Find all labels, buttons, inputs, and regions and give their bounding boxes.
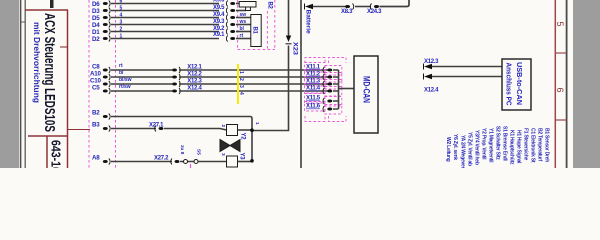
wire C8-X12.1 — [111, 69, 172, 71]
svg-text:D3: D3 — [92, 8, 100, 15]
svg-text:X8.3: X8.3 — [341, 9, 353, 15]
connector X27.1 — [149, 123, 164, 132]
terminal X12.1 — [172, 65, 202, 74]
svg-text:X12.4: X12.4 — [424, 88, 439, 94]
svg-text:bl: bl — [119, 70, 124, 76]
svg-text:S5: S5 — [196, 149, 202, 155]
svg-text:rt/sw: rt/sw — [119, 84, 131, 90]
svg-text:X9.4: X9.4 — [213, 12, 225, 18]
svg-text:Y6 Zyl. senk: Y6 Zyl. senk — [452, 134, 458, 160]
X11.6 connector dashed bracket — [325, 105, 342, 115]
pin D6 — [92, 1, 110, 9]
B1/B2 dashed enclosure right — [274, 0, 276, 50]
wire C10-X12.3 — [111, 83, 172, 85]
wire to top corner — [380, 0, 410, 7]
svg-text:bl/sw: bl/sw — [119, 77, 132, 83]
svg-text:X11.1: X11.1 — [306, 65, 321, 71]
X11.4 label dashed bracket — [305, 84, 326, 94]
svg-text:H1 Hupe Signal: H1 Hupe Signal — [516, 130, 522, 164]
junction at return bus bottom — [250, 159, 254, 163]
wire D4-X9.3 — [111, 24, 219, 26]
terminal X9.3 — [213, 19, 235, 28]
svg-text:Y2 Prop. Ventil: Y2 Prop. Ventil — [481, 128, 487, 160]
X11 dashed box top runs — [305, 58, 346, 64]
USB-to-CAN box — [502, 59, 531, 110]
svg-text:C10: C10 — [90, 78, 102, 85]
pin C5 — [92, 85, 110, 95]
svg-text:X9.5: X9.5 — [213, 5, 225, 11]
X11.1 label dashed bracket — [305, 63, 326, 73]
svg-text:Y2: Y2 — [240, 133, 246, 141]
pin A10 — [90, 71, 110, 81]
wire A10-X12.2 — [111, 76, 172, 78]
cable marker yellow — [237, 64, 239, 104]
svg-text:ACX Steuerung LEDS10S: ACX Steuerung LEDS10S — [41, 13, 57, 132]
svg-text:F1 Steuersiche: F1 Steuersiche — [523, 128, 529, 161]
svg-text:sw: sw — [240, 12, 247, 18]
switch contact a — [184, 160, 188, 164]
wire numbers 6..1 — [120, 0, 123, 40]
wire D3-X9.5 — [111, 10, 219, 12]
wire stubs into B boxes — [236, 4, 251, 39]
X23 tick — [286, 43, 292, 45]
pin B2 — [92, 110, 110, 120]
X12.3 source arrow — [424, 59, 503, 70]
svg-text:D6: D6 — [92, 1, 100, 8]
X11.6 label dashed bracket — [305, 102, 326, 112]
frame row tick right upper — [555, 52, 567, 54]
X11 bus bar — [338, 70, 340, 109]
wire D1-X9.2 — [111, 31, 219, 33]
left paper edge line 1 — [20, 0, 22, 168]
X23 arrowhead — [286, 36, 291, 43]
X11.2 — [306, 72, 339, 81]
svg-text:2: 2 — [220, 125, 226, 128]
title block top border — [25, 9, 68, 11]
frame red line right — [554, 0, 556, 168]
svg-text:643-10S: 643-10S — [49, 140, 63, 168]
svg-text:X11.4: X11.4 — [306, 86, 321, 92]
terminal X9.4 — [213, 12, 235, 21]
wire D5-X9.4 — [111, 17, 219, 19]
terminal X12.2 — [172, 72, 202, 81]
svg-text:S2 Schalter Sitz: S2 Schalter Sitz — [495, 126, 501, 160]
svg-text:1: 1 — [254, 122, 260, 125]
svg-text:MD-CAN: MD-CAN — [362, 76, 372, 103]
wire between connectors — [355, 6, 371, 8]
X12 continuation wires to X11 — [179, 70, 330, 91]
svg-text:ws: ws — [239, 19, 247, 25]
svg-text:D4: D4 — [92, 22, 100, 29]
pin D3 — [92, 8, 110, 16]
pin C10 — [90, 78, 110, 88]
frame tick left lower — [68, 129, 90, 131]
title block divider — [28, 135, 68, 137]
cable conductor numbers — [238, 71, 244, 95]
wire D6-X9.6 — [111, 3, 219, 5]
valve body Y3 — [220, 140, 240, 152]
X11.1 connector dashed bracket — [325, 66, 342, 76]
svg-text:C5: C5 — [92, 85, 100, 92]
return wire valve to X23 — [252, 46, 289, 131]
left gray scan band — [0, 0, 19, 168]
X11.3 — [306, 79, 339, 88]
ECU dashed box right edge — [115, 0, 117, 168]
svg-text:Anschluss PC: Anschluss PC — [505, 63, 514, 106]
bus to MD-CAN wire — [339, 88, 355, 90]
magenta potential tick — [190, 164, 192, 168]
X11.5 — [306, 96, 339, 105]
X11.3 connector dashed bracket — [325, 80, 342, 90]
pin D1 — [92, 29, 110, 37]
left paper edge line 2 — [24, 0, 26, 168]
svg-text:X9.1: X9.1 — [213, 32, 225, 38]
svg-text:W2 Leitung: W2 Leitung — [445, 137, 451, 162]
svg-text:Y3/Y4 Ventil heb: Y3/Y4 Ventil heb — [474, 130, 480, 165]
X12.4 source arrow — [424, 74, 503, 94]
terminal X9.2 — [213, 26, 235, 35]
svg-text:K1 Hauptschütz: K1 Hauptschütz — [509, 130, 515, 165]
svg-text:X27.2: X27.2 — [154, 156, 169, 162]
connector X24.3 — [367, 4, 382, 16]
coil Y3 output wire — [238, 129, 253, 131]
svg-text:B3: B3 — [92, 122, 100, 129]
svg-text:B2: B2 — [267, 2, 273, 10]
svg-text:S1 Bremse Endl: S1 Bremse Endl — [502, 126, 508, 161]
X11.6 — [306, 104, 339, 113]
svg-text:rt: rt — [240, 33, 244, 39]
cut-off text above title — [50, 0, 54, 8]
svg-text:B2 Temperaturf: B2 Temperaturf — [537, 128, 543, 162]
wire B2 to valve return — [111, 117, 252, 161]
right gray scan band — [573, 0, 600, 168]
svg-text:3: 3 — [220, 153, 226, 156]
svg-text:mit Drehvorrichtung: mit Drehvorrichtung — [32, 22, 41, 103]
sensor B1 box — [251, 15, 261, 47]
svg-text:B2: B2 — [92, 110, 100, 117]
X11.3 label dashed bracket — [305, 77, 326, 87]
connector X27.2 — [154, 156, 179, 165]
switch contact b — [194, 160, 198, 164]
svg-text:D1: D1 — [92, 29, 100, 36]
svg-text:YA 2/4 Wegevent.: YA 2/4 Wegevent. — [460, 135, 466, 168]
X11.4 — [306, 86, 339, 95]
frame tick left upper — [60, 46, 68, 48]
batterie arrow — [305, 4, 346, 10]
C wire color labels — [119, 63, 132, 90]
svg-text:X24.3: X24.3 — [367, 9, 382, 15]
svg-text:Y3: Y3 — [239, 153, 245, 161]
svg-text:D5: D5 — [92, 15, 100, 22]
X23 vertical wire from top — [288, 0, 290, 37]
wire D2-X9.1 — [111, 38, 219, 40]
wire B3 to X27.1 — [111, 128, 156, 130]
B1/B2 dashed enclosure bottom — [238, 49, 275, 51]
right paper edge line — [566, 0, 568, 168]
pin D4 — [92, 22, 110, 30]
X11 dashed box bottom runs — [305, 116, 346, 122]
svg-text:Y5 Zyl. Ventil ab: Y5 Zyl. Ventil ab — [467, 132, 473, 166]
svg-text:X11.2: X11.2 — [306, 72, 321, 78]
wire X27.1 to coil Y3 — [164, 129, 227, 131]
wire C5-X12.4 — [111, 90, 172, 92]
X11.1 — [306, 65, 339, 74]
B1/B2 dashed enclosure left — [237, 0, 239, 50]
terminal X12.3 — [172, 79, 202, 88]
svg-text:zu 8: zu 8 — [179, 145, 185, 155]
svg-text:5: 5 — [555, 22, 565, 27]
B1/B2 dashed divider — [266, 11, 268, 50]
MD-CAN module — [354, 56, 378, 133]
X11.2 connector dashed bracket — [325, 73, 342, 83]
svg-text:X11.3: X11.3 — [306, 79, 321, 85]
terminal X9.6 — [213, 0, 235, 7]
svg-text:C1 Elektronik St: C1 Elektronik St — [530, 128, 536, 163]
connector X8.3 — [341, 4, 354, 16]
title block right border — [67, 10, 69, 168]
svg-text:bl: bl — [240, 26, 245, 32]
svg-text:X9.3: X9.3 — [213, 19, 225, 25]
pin B3 — [92, 122, 110, 132]
terminal X12.4 — [172, 86, 202, 95]
coil Y4 output wire — [238, 161, 253, 163]
svg-text:C8: C8 — [92, 64, 100, 71]
coil Y4 — [227, 156, 238, 167]
svg-text:A10: A10 — [90, 71, 102, 78]
svg-text:A8: A8 — [92, 155, 100, 162]
title block inner vertical — [46, 136, 48, 168]
svg-text:6: 6 — [555, 88, 565, 93]
pin C8 — [92, 64, 110, 74]
X11.2 label dashed bracket — [305, 70, 326, 80]
wire to switch — [180, 161, 227, 163]
page background — [0, 0, 600, 168]
svg-text:D2: D2 — [92, 36, 100, 43]
svg-text:X11.6: X11.6 — [306, 104, 321, 110]
terminal X9.5 — [213, 5, 235, 14]
svg-text:Batterie: Batterie — [305, 10, 312, 35]
wire color labels sw ws bl rt — [239, 12, 247, 39]
wire A8 to X27.2 — [111, 161, 172, 163]
X11.5 connector dashed bracket — [325, 97, 342, 107]
svg-text:X9.6: X9.6 — [213, 0, 225, 4]
X11.4 connector dashed bracket — [325, 87, 342, 97]
svg-text:X23: X23 — [292, 42, 299, 55]
pin D5 — [92, 15, 110, 23]
ECU dashed box left edge — [88, 0, 90, 168]
terminal X9.1 — [213, 32, 235, 42]
left edge small tick — [21, 21, 25, 23]
pin A8 — [92, 155, 110, 165]
svg-text:rt: rt — [119, 63, 123, 69]
horn B2 symbol — [239, 2, 256, 11]
svg-text:X12.3: X12.3 — [424, 59, 439, 65]
junction at return bus top — [250, 128, 254, 132]
frame row tick right lower — [555, 119, 567, 121]
svg-text:X11.5: X11.5 — [306, 96, 321, 102]
svg-text:B1: B1 — [252, 27, 258, 35]
X11.5 label dashed bracket — [305, 94, 326, 104]
pin D2 — [92, 36, 110, 44]
coil Y3 — [227, 125, 238, 136]
svg-text:B1 Sensor Dreh: B1 Sensor Dreh — [544, 128, 550, 162]
long vertical pass-through wire — [300, 0, 302, 168]
svg-text:USB-to-CAN: USB-to-CAN — [515, 62, 524, 105]
svg-text:Y1 Magnetventil: Y1 Magnetventil — [488, 128, 494, 163]
